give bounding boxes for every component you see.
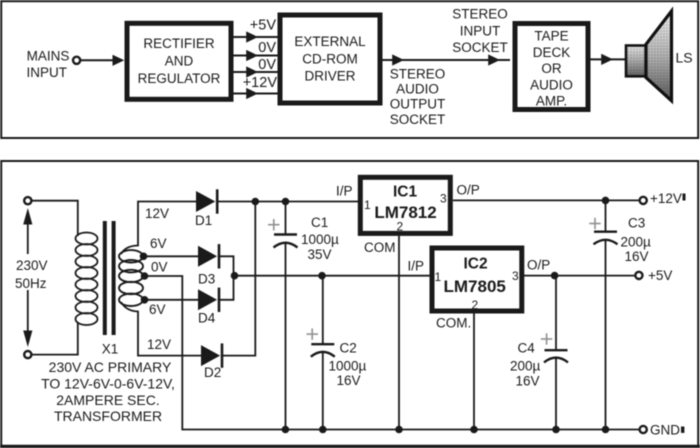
- svg-text:IC1: IC1: [393, 184, 418, 201]
- svg-text:D1: D1: [195, 213, 212, 228]
- node 6V bottom tap: [141, 296, 149, 304]
- frame: bottom schematic box: [1, 161, 698, 446]
- wire D1 output to IC1 input rail: [217, 201, 359, 203]
- terminal mains input: [73, 57, 80, 64]
- diode D2: [201, 345, 220, 366]
- svg-text:12V: 12V: [147, 337, 171, 352]
- diode D4: [198, 289, 217, 310]
- svg-text:SOCKET: SOCKET: [452, 40, 508, 55]
- capacitor C2: [322, 276, 324, 345]
- node ground C3: [602, 426, 610, 434]
- wire +5V arrow: [234, 36, 278, 38]
- svg-text:200µ: 200µ: [621, 235, 652, 250]
- label + C4 polarity: [541, 333, 553, 344]
- svg-text:230V AC PRIMARY: 230V AC PRIMARY: [49, 359, 172, 375]
- svg-text:6V: 6V: [150, 236, 167, 251]
- node ground IC1 COM: [395, 426, 403, 434]
- svg-text:0V: 0V: [258, 57, 276, 73]
- svg-text:GND: GND: [650, 423, 680, 438]
- capacitor C4: [555, 276, 557, 351]
- svg-text:6V: 6V: [149, 302, 166, 317]
- wire 0V arrow (first): [234, 55, 278, 57]
- svg-text:C4: C4: [518, 341, 536, 356]
- svg-text:EXTERNAL: EXTERNAL: [294, 34, 366, 49]
- wire mains input to rectifier: [81, 59, 121, 61]
- label + C3 polarity: [589, 218, 601, 229]
- svg-text:1000µ: 1000µ: [329, 359, 367, 374]
- svg-text:1000µ: 1000µ: [301, 232, 339, 247]
- svg-text:D4: D4: [198, 311, 216, 326]
- svg-text:C1: C1: [311, 215, 328, 230]
- node ground C4: [552, 426, 560, 434]
- svg-text:0V: 0V: [151, 260, 168, 275]
- svg-text:16V: 16V: [516, 374, 540, 389]
- node C2 top junction: [318, 272, 326, 280]
- svg-text:3: 3: [440, 192, 447, 206]
- wire D3/D4 output to IC2 input: [234, 275, 431, 277]
- transformer core: [103, 221, 107, 335]
- capacitor C3: [605, 200, 607, 231]
- svg-text:2: 2: [472, 298, 479, 312]
- wire double arrow 230V span: [27, 216, 29, 254]
- svg-text:+5V: +5V: [648, 268, 672, 283]
- svg-text:I/P: I/P: [336, 184, 353, 199]
- svg-text:AMP.: AMP.: [536, 94, 567, 109]
- label + C1 polarity: [268, 219, 280, 231]
- svg-text:IC2: IC2: [463, 256, 487, 273]
- wire IC2 output to +5V terminal: [524, 275, 635, 277]
- svg-text:3: 3: [512, 269, 519, 283]
- svg-text:LM7812: LM7812: [374, 203, 436, 222]
- wire bottom terminal to primary: [32, 322, 78, 355]
- node ground C2: [319, 426, 327, 434]
- svg-text:1: 1: [435, 270, 442, 284]
- wire D2 output up to rail: [222, 202, 256, 356]
- svg-text:INPUT: INPUT: [26, 65, 67, 80]
- svg-text:D2: D2: [204, 365, 221, 380]
- wire IC1 COM to ground rail: [398, 236, 400, 430]
- svg-text:1: 1: [364, 198, 371, 212]
- svg-text:35V: 35V: [308, 247, 332, 262]
- svg-text:C2: C2: [340, 341, 357, 356]
- svg-text:MAINS: MAINS: [27, 49, 70, 64]
- node D1-D2 junction: [252, 198, 260, 206]
- terminal +12V: [640, 197, 647, 204]
- svg-text:50Hz: 50Hz: [15, 276, 47, 291]
- wire cd-rom driver to tape deck: [383, 59, 511, 61]
- svg-text:TO 12V-6V-0-6V-12V,: TO 12V-6V-0-6V-12V,: [41, 376, 175, 392]
- svg-text:STEREO: STEREO: [452, 7, 508, 22]
- svg-text:STEREO: STEREO: [390, 67, 446, 82]
- svg-text:+5V: +5V: [250, 18, 277, 34]
- wire tape deck to loudspeaker: [591, 58, 626, 60]
- block RECTIFIER AND REGULATOR: [127, 23, 231, 99]
- diode D1: [196, 191, 215, 212]
- svg-text:OUTPUT: OUTPUT: [390, 97, 446, 112]
- wire secondary bottom lead to 12V bottom line: [121, 302, 201, 356]
- svg-text:AUDIO: AUDIO: [530, 77, 573, 92]
- svg-text:RECTIFIER: RECTIFIER: [143, 36, 215, 51]
- node C3 top junction: [602, 197, 610, 205]
- wire +12V arrow: [234, 93, 278, 95]
- node ground IC2 COM: [470, 426, 478, 434]
- svg-text:AND: AND: [165, 54, 194, 69]
- wire top terminal to primary: [32, 201, 78, 236]
- node 0V tap: [141, 272, 149, 280]
- svg-text:X1: X1: [102, 342, 119, 357]
- wire IC1 output to +12V terminal: [453, 199, 640, 201]
- node D3/D4 output junction: [231, 272, 239, 280]
- wire 6V bottom tap to D4: [143, 299, 199, 301]
- svg-text:TRANSFORMER: TRANSFORMER: [54, 408, 162, 424]
- svg-text:O/P: O/P: [527, 258, 550, 273]
- svg-text:12V: 12V: [145, 206, 169, 221]
- svg-text:CD-ROM: CD-ROM: [302, 52, 358, 67]
- loudspeaker LS driver box: [626, 46, 646, 77]
- svg-text:INPUT: INPUT: [460, 24, 501, 39]
- wire ground rail: [285, 429, 639, 431]
- svg-text:SOCKET: SOCKET: [390, 112, 446, 127]
- wire 0V tap to ground rail: [144, 276, 285, 430]
- transformer X1 primary coil: [76, 233, 98, 326]
- svg-text:0V: 0V: [258, 40, 276, 56]
- svg-text:I/P: I/P: [408, 259, 425, 274]
- terminal +5V: [635, 272, 642, 279]
- svg-text:LS: LS: [676, 50, 693, 66]
- svg-text:16V: 16V: [625, 249, 649, 264]
- svg-text:COM: COM: [364, 240, 396, 255]
- svg-text:AUDIO: AUDIO: [396, 82, 439, 97]
- svg-text:LM7805: LM7805: [444, 277, 506, 296]
- wire D3-D4 cathode join: [219, 256, 234, 300]
- svg-text:OR: OR: [541, 61, 562, 76]
- terminal GND: [640, 426, 647, 433]
- block EXTERNAL CD-ROM DRIVER: [280, 15, 380, 103]
- svg-text:DRIVER: DRIVER: [304, 69, 355, 84]
- svg-text:200µ: 200µ: [510, 359, 541, 374]
- frame: top block-diagram box: [1, 1, 698, 138]
- svg-text:2: 2: [397, 220, 404, 234]
- node ground C1: [282, 426, 290, 434]
- svg-text:+12V: +12V: [243, 75, 278, 91]
- wire IC2 COM to ground rail: [473, 312, 475, 430]
- node C4 top junction: [551, 272, 559, 280]
- op IC2 LM7805: [432, 248, 522, 311]
- diode D3: [198, 246, 217, 267]
- svg-text:O/P: O/P: [457, 183, 480, 198]
- svg-text:D3: D3: [198, 272, 215, 287]
- block TAPE DECK OR AUDIO AMP.: [515, 24, 588, 110]
- wire 0V arrow (second): [234, 71, 278, 73]
- loudspeaker LS cone: [646, 11, 672, 101]
- wire 6V tap to D3: [143, 255, 199, 257]
- svg-text:C3: C3: [628, 216, 645, 231]
- node C1 top junction: [282, 198, 290, 206]
- op IC1 LM7812: [360, 177, 450, 233]
- svg-text:DECK: DECK: [533, 45, 571, 60]
- svg-text:COM.: COM.: [436, 316, 471, 331]
- svg-text:+12V: +12V: [650, 191, 682, 206]
- svg-text:TAPE: TAPE: [534, 29, 568, 44]
- terminal mains neutral: [24, 351, 31, 358]
- svg-text:REGULATOR: REGULATOR: [138, 71, 221, 86]
- svg-text:230V: 230V: [16, 258, 48, 273]
- svg-text:2AMPERE SEC.: 2AMPERE SEC.: [56, 392, 159, 408]
- capacitor C1: [285, 202, 287, 235]
- label + C2 polarity: [307, 328, 319, 339]
- terminal mains live: [24, 197, 31, 204]
- transformer X1 secondary coil: [119, 250, 143, 306]
- wire secondary top lead to 12V line: [121, 202, 196, 255]
- svg-text:16V: 16V: [337, 373, 361, 388]
- node 6V top tap: [140, 252, 148, 260]
